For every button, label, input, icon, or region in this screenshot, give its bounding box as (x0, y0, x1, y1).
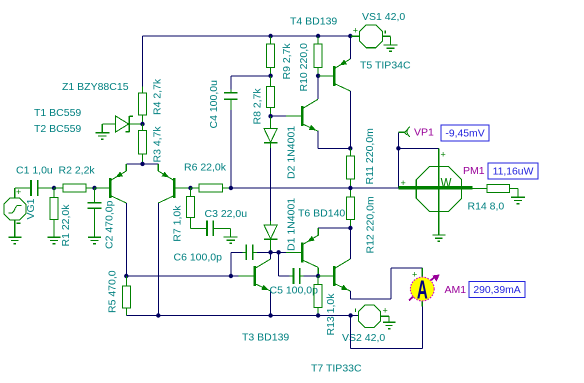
value box 11,16uW (488, 163, 538, 179)
resistor R10 220,0 (317, 37, 319, 45)
zener Z1 BZY88C15 (102, 116, 133, 133)
svg-text:T3 BD139: T3 BD139 (242, 332, 289, 344)
transistor T3 BD139 (253, 266, 256, 286)
node D1-T3 coll-T6 base (268, 250, 272, 254)
transistor T4 BD139 (301, 106, 304, 126)
svg-text:C1 1,0u: C1 1,0u (16, 164, 53, 176)
capacitor C2 470,0p (94, 188, 96, 203)
svg-text:R11 220,0m: R11 220,0m (364, 128, 376, 185)
svg-text:R14 8,0: R14 8,0 (468, 201, 505, 213)
voltage pin VP1 (398, 127, 409, 137)
wire T7 emitter down (349, 291, 351, 299)
wire T2 emitter stub (125, 164, 127, 171)
resistor R14 8,0 (472, 187, 487, 189)
wire diode chain (270, 148, 272, 221)
wire T2 collector down (125, 203, 127, 276)
wire T4 base (271, 115, 287, 117)
node rail-R10 (316, 34, 320, 38)
signal source VG1 (4, 187, 30, 237)
svg-text:VP1: VP1 (414, 126, 434, 138)
ground VS1 (383, 44, 397, 46)
svg-text:D1 1N4001: D1 1N4001 (286, 198, 298, 251)
transistor T2 BC559 (109, 178, 112, 198)
svg-text:C2 470,0p: C2 470,0p (104, 200, 116, 249)
svg-text:T4 BD139: T4 BD139 (290, 15, 337, 27)
wire C6 left down (231, 251, 242, 253)
node R8-D2-T4 base (268, 114, 272, 118)
wire T4 collector (317, 76, 319, 99)
resistor R3 4,7k (142, 124, 144, 131)
svg-text:A: A (417, 275, 428, 304)
node rail-R9 (268, 34, 272, 38)
svg-text:R6 22,0k: R6 22,0k (184, 162, 227, 174)
node R4-R3-Z1 (140, 122, 144, 126)
node C6 tap (229, 274, 233, 278)
wire C3 to ground (217, 227, 231, 229)
node R2-C2-T2 base (92, 186, 96, 190)
svg-text:D2 1N4001: D2 1N4001 (286, 126, 298, 179)
svg-text:R2 2,2k: R2 2,2k (59, 164, 96, 176)
svg-text:C5 100,0p: C5 100,0p (270, 285, 319, 297)
svg-text:R7 1,0k: R7 1,0k (172, 205, 184, 242)
svg-text:R4 2,7k: R4 2,7k (152, 78, 164, 115)
svg-text:+: + (353, 26, 358, 36)
node T2 coll-R5 (124, 274, 128, 278)
svg-text:+: + (383, 306, 388, 316)
capacitor C4 100,0u (230, 90, 232, 93)
wire emitter rail (126, 163, 158, 165)
svg-text:T7 TIP33C: T7 TIP33C (311, 363, 362, 375)
svg-text:R12 220,0m: R12 220,0m (365, 196, 377, 253)
svg-text:+: + (412, 270, 417, 280)
wire AM1 top loop (350, 298, 391, 300)
voltage source VS1 42,0 (350, 25, 390, 48)
transistor T6 BD140 (301, 242, 304, 262)
svg-text:-9,45mV: -9,45mV (445, 129, 484, 140)
wire C5 left from branch (278, 252, 280, 276)
resistor R1 22,0k (53, 188, 55, 198)
value box 290,39mA (469, 282, 525, 298)
voltage source VS2 42,0 (356, 305, 389, 327)
wire T6 emitter (318, 227, 350, 229)
node rail-VS2-AM1 return (348, 313, 352, 317)
svg-text:T6 BD140: T6 BD140 (298, 208, 345, 220)
resistor R12 220,0m (349, 188, 351, 197)
node VP1-PM1-output (396, 146, 400, 150)
wire base line T3 (126, 275, 239, 277)
node R9-R8-C4 (268, 74, 272, 78)
svg-text:R1 22,0k: R1 22,0k (60, 204, 72, 247)
wire bottom -42V rail (126, 315, 358, 317)
ground PM1 (432, 234, 445, 236)
transistor T5 TIP34C (333, 66, 336, 86)
svg-text:R13 1,0k: R13 1,0k (325, 293, 337, 336)
transistor T7 TIP33C (333, 266, 336, 286)
wire T1 emitter stub (157, 164, 159, 171)
wire T4 emitter (317, 131, 319, 148)
svg-text:11,16uW: 11,16uW (493, 167, 534, 178)
wire T6 collector (317, 267, 319, 276)
wire VP1 to node (397, 132, 399, 148)
resistor R2 2,2k (54, 187, 63, 189)
svg-text:W: W (441, 174, 453, 190)
wire T7 collector up (349, 228, 351, 259)
ground VG1 (8, 236, 21, 238)
svg-text:T2 BC559: T2 BC559 (34, 123, 81, 135)
wire T3 emitter down (270, 291, 272, 316)
svg-text:C4 100,0u: C4 100,0u (208, 80, 220, 129)
ground C3 (224, 236, 238, 238)
node R10-T5 base-T4 coll (316, 74, 320, 78)
svg-text:+: + (16, 187, 21, 197)
svg-text:R5 470,0: R5 470,0 (107, 270, 119, 313)
resistor R5 470,0 (125, 276, 127, 286)
svg-text:R9 2,7k: R9 2,7k (281, 43, 293, 80)
capacitor C3 22,0u (203, 227, 207, 229)
svg-text:AM1: AM1 (445, 284, 467, 296)
wire R14 to ground (517, 188, 519, 197)
resistor R4 2,7k (142, 87, 144, 94)
resistor R13 1,0k (317, 276, 319, 285)
ground R14 (511, 196, 525, 198)
resistor R6 22,0k (191, 187, 200, 189)
node R6-C4 junction (229, 186, 233, 190)
resistor R9 2,7k (270, 37, 272, 45)
wire output down to PM1 line (397, 148, 399, 188)
wire T1 collector down (157, 203, 159, 316)
node rail-T1 coll (156, 313, 160, 317)
wire C6 right to D1 node (257, 251, 271, 253)
wire top +42V rail (143, 35, 359, 37)
node output mid (348, 186, 352, 190)
ground C2 (88, 236, 101, 238)
svg-text:+: + (441, 150, 446, 160)
wire R4 feed from rail (142, 36, 144, 87)
wire T3 collector up (270, 252, 272, 259)
ground R1 (48, 236, 61, 238)
svg-text:C6 100,0p: C6 100,0p (174, 252, 223, 264)
node T6 coll-C5-R13-T7 base (316, 274, 320, 278)
svg-text:VS2 42,0: VS2 42,0 (342, 332, 385, 344)
ammeter AM1 (409, 268, 440, 306)
node T5 coll-T4 emit-R11 (348, 146, 352, 150)
resistor R8 2,7k (270, 76, 272, 87)
wire C4 top link (231, 75, 271, 77)
power meter PM1 (398, 148, 472, 235)
capacitor C5 100,0p (290, 275, 294, 277)
wire C4 down to output (230, 110, 232, 188)
wire output line (231, 187, 351, 189)
capacitor C1 1,0u (30, 187, 31, 189)
wire C5 right (304, 275, 319, 277)
node rail-T5 emitter (348, 34, 352, 38)
wire Z1 cathode to node (129, 123, 142, 125)
wire AM1 bottom return (421, 307, 423, 349)
node rail-T3 emit (268, 313, 272, 317)
value box -9,45mV (441, 125, 489, 141)
diode D2 1N4001 (270, 116, 272, 128)
svg-text:290,39mA: 290,39mA (473, 285, 520, 296)
capacitor C6 100,0p (242, 251, 246, 253)
wire to PM1 top (398, 147, 438, 149)
svg-text:R10 220,0: R10 220,0 (298, 43, 310, 92)
wire T5 collector down (349, 91, 351, 148)
node rail-R13 (316, 313, 320, 317)
wire R7 to C3 (190, 224, 192, 228)
resistor R7 1,0k (190, 188, 192, 197)
svg-text:Z1 BZY88C15: Z1 BZY88C15 (62, 81, 129, 93)
svg-text:C3 22,0u: C3 22,0u (205, 208, 248, 220)
node C5 branch (276, 250, 280, 254)
svg-text:T5 TIP34C: T5 TIP34C (360, 59, 411, 71)
wire T5 emitter up (349, 36, 351, 59)
node C1-R1-R2 (52, 186, 56, 190)
ground VS2 (383, 321, 396, 323)
resistor R11 220,0m (349, 148, 351, 156)
diode D1 1N4001 (270, 221, 272, 225)
svg-text:R3 4,7k: R3 4,7k (152, 126, 164, 163)
node T1 base-R7-R6 (188, 186, 192, 190)
svg-text:VS1 42,0: VS1 42,0 (362, 11, 405, 23)
svg-text:PM1: PM1 (463, 165, 485, 177)
ground Z1 (95, 132, 109, 134)
node R3-emitters (140, 162, 144, 166)
transistor T1 BC559 (173, 178, 176, 198)
svg-text:VG1: VG1 (25, 198, 37, 219)
svg-text:+: + (401, 178, 406, 188)
wire to C5 branch (271, 251, 287, 253)
node R12-T6 emit-T7 coll (348, 226, 352, 230)
svg-text:R8 2,7k: R8 2,7k (252, 88, 264, 125)
svg-text:T1 BC559: T1 BC559 (34, 107, 81, 119)
